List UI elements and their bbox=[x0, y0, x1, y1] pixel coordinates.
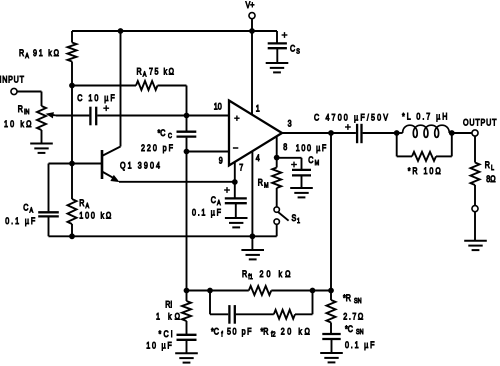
svg-text:A: A bbox=[30, 207, 34, 215]
svg-text:100 µF: 100 µF bbox=[296, 143, 326, 153]
svg-text:M: M bbox=[264, 182, 269, 190]
svg-text:C 10 µF: C 10 µF bbox=[77, 93, 115, 103]
svg-text:A: A bbox=[25, 52, 29, 60]
svg-text:f1: f1 bbox=[248, 273, 253, 281]
svg-text:0.1 µF: 0.1 µF bbox=[5, 216, 35, 226]
svg-text:A: A bbox=[217, 199, 221, 207]
svg-text:C: C bbox=[211, 195, 216, 205]
svg-text:7: 7 bbox=[239, 163, 243, 173]
svg-text:1: 1 bbox=[297, 218, 300, 226]
svg-text:10 µF: 10 µF bbox=[146, 340, 172, 350]
svg-text:20 kΩ: 20 kΩ bbox=[281, 326, 310, 336]
svg-text:R: R bbox=[18, 104, 23, 114]
svg-text:S: S bbox=[292, 213, 297, 223]
svg-text:f: f bbox=[221, 331, 223, 339]
svg-text:10: 10 bbox=[214, 102, 222, 112]
svg-text:*C: *C bbox=[158, 128, 166, 138]
svg-text:91 kΩ: 91 kΩ bbox=[33, 48, 59, 58]
svg-text:SN: SN bbox=[354, 297, 362, 305]
svg-text:S: S bbox=[296, 48, 300, 56]
svg-text:8Ω: 8Ω bbox=[486, 174, 495, 184]
svg-text:C: C bbox=[168, 133, 172, 141]
svg-text:Q1 3904: Q1 3904 bbox=[120, 160, 160, 170]
svg-text:R: R bbox=[242, 269, 247, 279]
svg-text:0.1 µF: 0.1 µF bbox=[192, 208, 221, 218]
svg-text:OUTPUT: OUTPUT bbox=[463, 117, 496, 127]
svg-text:R: R bbox=[79, 198, 84, 208]
svg-text:A: A bbox=[86, 202, 90, 210]
svg-text:8: 8 bbox=[283, 142, 287, 152]
svg-text:V+: V+ bbox=[246, 0, 255, 10]
svg-text:SN: SN bbox=[356, 328, 364, 336]
svg-text:4: 4 bbox=[256, 153, 260, 163]
svg-text:Ri: Ri bbox=[165, 300, 172, 310]
svg-text:100 kΩ: 100 kΩ bbox=[79, 210, 111, 220]
svg-text:1: 1 bbox=[256, 104, 260, 114]
svg-text:R: R bbox=[258, 177, 263, 187]
svg-text:50 pF: 50 pF bbox=[227, 326, 251, 336]
svg-text:C: C bbox=[23, 203, 28, 213]
svg-text:3: 3 bbox=[288, 119, 292, 129]
svg-text:IN: IN bbox=[24, 109, 30, 117]
svg-text:f2: f2 bbox=[271, 331, 276, 339]
svg-text:*C: *C bbox=[211, 326, 219, 336]
svg-text:M: M bbox=[315, 159, 320, 167]
svg-text:*L 0.7 µH: *L 0.7 µH bbox=[402, 112, 448, 122]
svg-text:C: C bbox=[290, 44, 295, 54]
svg-text:0.1 µF: 0.1 µF bbox=[345, 340, 374, 350]
svg-text:C: C bbox=[308, 155, 313, 165]
svg-text:A: A bbox=[143, 71, 147, 79]
svg-text:R: R bbox=[19, 48, 24, 58]
svg-text:*R: *R bbox=[261, 326, 269, 336]
svg-text:9: 9 bbox=[219, 156, 223, 166]
svg-text:L: L bbox=[491, 164, 494, 172]
svg-text:INPUT: INPUT bbox=[0, 74, 24, 84]
svg-text:*C: *C bbox=[345, 324, 353, 334]
svg-text:R: R bbox=[137, 66, 142, 76]
svg-text:20 kΩ: 20 kΩ bbox=[260, 269, 291, 279]
svg-text:10 kΩ: 10 kΩ bbox=[4, 119, 32, 129]
svg-text:75 kΩ: 75 kΩ bbox=[149, 66, 174, 76]
svg-text:1 kΩ: 1 kΩ bbox=[156, 312, 180, 322]
svg-text:R: R bbox=[485, 160, 490, 170]
svg-text:220 pF: 220 pF bbox=[141, 143, 173, 153]
svg-text:*R 10Ω: *R 10Ω bbox=[408, 166, 441, 176]
svg-text:*R: *R bbox=[343, 293, 351, 303]
svg-text:2.7Ω: 2.7Ω bbox=[343, 311, 363, 321]
svg-text:*Ci: *Ci bbox=[159, 329, 173, 339]
svg-text:C 4700 µF/50V: C 4700 µF/50V bbox=[314, 112, 388, 122]
